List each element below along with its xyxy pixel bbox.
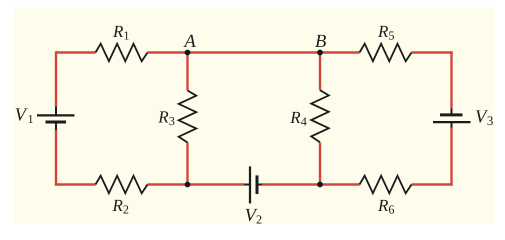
wire: top-left to R1 <box>56 51 96 53</box>
wire: R4 down to bottom node <box>319 143 321 185</box>
resistor R5 <box>360 44 412 62</box>
resistor R2 <box>96 176 148 194</box>
battery V1 <box>37 107 75 130</box>
resistor R4 <box>311 90 329 142</box>
wire: left side lower (V1 to corner) <box>55 129 57 185</box>
resistor R1 <box>96 44 148 62</box>
node B <box>317 50 323 56</box>
resistor R3 <box>179 91 197 143</box>
wire: R5 to top-right corner <box>412 51 453 53</box>
junction dot bottom-left (R3/V2) <box>185 182 191 188</box>
node A <box>185 50 191 56</box>
wire: left side upper (corner to V1) <box>55 51 57 107</box>
resistor R6 <box>360 176 412 194</box>
svg-text:B: B <box>315 31 326 52</box>
junction dot bottom-right (V2/R4) <box>317 182 323 188</box>
wire: V2 to R6 <box>262 183 360 185</box>
wire: right side lower (V3 to corner) <box>450 127 452 186</box>
wire: R1 to R5 through A and B <box>148 51 360 53</box>
wire: R6 to bottom-right corner <box>412 183 453 185</box>
battery V2 <box>245 166 262 203</box>
svg-text:A: A <box>182 31 196 52</box>
wire: R3 down to bottom node <box>186 143 188 185</box>
battery V3 <box>433 109 471 128</box>
wire: node B down to R4 <box>319 53 321 91</box>
wire: bottom-left corner to R2 <box>55 183 96 185</box>
wire: right side upper (corner to V3) <box>450 51 452 108</box>
wire: node A down to R3 <box>186 53 188 91</box>
wire: R2 to V2 <box>148 183 246 185</box>
